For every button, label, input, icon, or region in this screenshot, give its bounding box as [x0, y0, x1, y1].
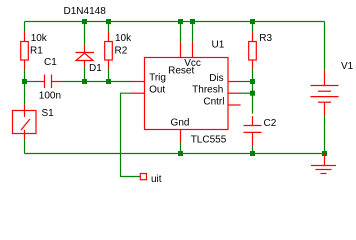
svg-text:Gnd: Gnd: [171, 118, 190, 129]
node junction R3 top rail: [250, 19, 255, 24]
wire Gnd pin to rail: [180, 143, 182, 154]
svg-text:D1N4148: D1N4148: [64, 6, 107, 17]
node A junction R1/C1/S1: [22, 79, 27, 84]
wire Dis-Thresh-C2 vertical: [252, 82, 254, 114]
node junction R2 bottom row: [106, 79, 111, 84]
node junction Vcc top rail: [190, 19, 195, 24]
node junction Dis: [250, 79, 255, 84]
pin Out stub: [132, 92, 145, 94]
resistor R1: [21, 32, 29, 69]
wire V1 top drop: [324, 22, 326, 71]
wire node A to S1: [24, 82, 26, 105]
ground: [311, 154, 336, 174]
svg-text:R1: R1: [30, 46, 43, 57]
pin Thresh stub: [228, 92, 240, 94]
node junction Thresh: [250, 91, 255, 96]
svg-text:uit: uit: [151, 174, 162, 185]
port uit: [140, 174, 146, 180]
svg-text:C1: C1: [44, 57, 57, 68]
node junction D1 anode row: [82, 79, 87, 84]
svg-text:C2: C2: [264, 118, 277, 129]
wire Dis link: [240, 81, 253, 83]
wire C2 bottom: [252, 146, 254, 154]
svg-text:S1: S1: [42, 108, 55, 119]
node junction Gnd rail: [178, 151, 183, 156]
wire R1 bottom to node A: [24, 69, 26, 82]
wire Vcc drop: [192, 22, 194, 43]
wire R2 bottom: [108, 69, 110, 82]
IC U1 TLC555 timer body: [145, 58, 229, 130]
pin Dis stub: [228, 81, 240, 83]
svg-text:Reset: Reset: [168, 66, 194, 77]
svg-text:V1: V1: [341, 61, 354, 72]
node junction Reset top rail: [178, 19, 183, 24]
wire Thresh link: [240, 92, 253, 94]
wire C1 to Trig: [61, 81, 132, 83]
capacitor C2: [244, 116, 262, 146]
svg-text:TLC555: TLC555: [191, 135, 227, 146]
svg-text:Thresh: Thresh: [192, 84, 223, 95]
pin Reset stub: [180, 42, 182, 58]
resistor R3: [249, 32, 257, 68]
wire Out net to uit port: [121, 93, 141, 176]
node junction D1 top rail: [82, 19, 87, 24]
svg-text:R2: R2: [115, 46, 128, 57]
svg-text:D1: D1: [89, 63, 102, 74]
node junction R2 top rail: [106, 19, 111, 24]
pin Trig stub: [132, 81, 145, 83]
svg-text:10k: 10k: [31, 33, 48, 44]
wire S1 bottom to rail corner: [24, 140, 26, 154]
svg-text:Dis: Dis: [209, 73, 223, 84]
capacitor C1: [37, 75, 61, 89]
node junction C2 rail: [250, 151, 255, 156]
svg-text:Out: Out: [149, 84, 165, 95]
diode D1: [76, 45, 95, 66]
wire Reset drop: [180, 22, 182, 43]
pin Cntrl stub: [228, 104, 241, 106]
node junction V1 rail: [322, 151, 327, 156]
svg-text:100n: 100n: [39, 90, 61, 101]
svg-text:U1: U1: [212, 40, 225, 51]
wire top supply rail: [25, 21, 325, 23]
wire R3 top: [252, 22, 254, 33]
resistor R2: [105, 31, 113, 69]
svg-text:10k: 10k: [115, 33, 132, 44]
wire node A to C1: [25, 81, 38, 83]
svg-text:Cntrl: Cntrl: [203, 97, 224, 108]
wire D1 bottom: [84, 66, 86, 81]
wire R1 top: [24, 22, 26, 33]
battery V1: [311, 70, 339, 115]
pin Vcc stub: [192, 42, 194, 58]
wire V1 bottom to rail: [324, 115, 326, 153]
svg-text:R3: R3: [259, 33, 272, 44]
wire D1 top: [84, 22, 86, 45]
wire R2 top: [108, 22, 110, 32]
pin Gnd stub: [180, 130, 182, 143]
wire R3 bottom: [252, 69, 254, 82]
switch S1: [13, 104, 37, 140]
svg-text:Trig: Trig: [149, 72, 166, 83]
wire bottom ground rail: [25, 153, 325, 155]
